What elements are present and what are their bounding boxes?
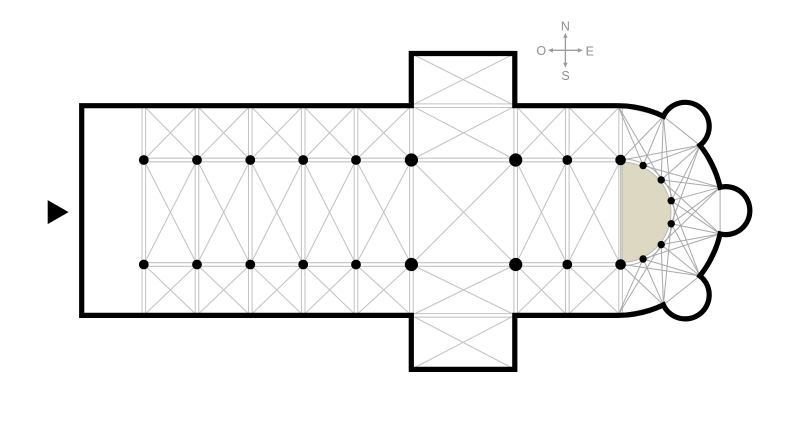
column P13 (south row) xyxy=(298,260,308,270)
ambulatory wall chord: NE chapel W junction to NE chapel E junction xyxy=(663,116,700,145)
ambulatory long rib: pier 2 to E chapel S junction xyxy=(661,180,720,234)
crossing pier P6 (north row) xyxy=(405,153,418,166)
ambulatory diagonal rib: pier 3 to E chapel S junction xyxy=(671,201,720,234)
hemicycle column C3 xyxy=(668,197,675,204)
north aisle rib vault X, bay 8 xyxy=(567,106,620,160)
north aisle rib vault X, bay 1 xyxy=(144,106,197,160)
column P3 (north row) xyxy=(245,155,255,165)
transverse arch pair at pier line 4 (x=303.2) xyxy=(301,106,305,316)
svg-text:O: O xyxy=(536,44,546,58)
ambulatory radial rib: hemicycle pier 3 to E chapel N junction xyxy=(671,187,720,200)
south transept arm rib vault X xyxy=(411,315,515,369)
transverse arch pair at pier line 2 (x=197) xyxy=(195,106,199,316)
crossing pier P16 (south row) xyxy=(509,258,522,271)
ambulatory wall chord: SE chapel W junction to S wall start xyxy=(618,305,663,315)
ambulatory long rib: pier 3 to SE chapel E junction xyxy=(671,201,700,276)
north aisle rib vault X, bay 5 xyxy=(356,106,411,160)
crossing pier P7 (north row) xyxy=(509,153,522,166)
transverse arch pair at pier line 6 (x=411.4) xyxy=(410,106,414,316)
north aisle rib vault X, bay 4 xyxy=(303,106,356,160)
ambulatory wall chord: N wall start to NE chapel W junction xyxy=(618,106,663,116)
nave rib vault X, bay 1 xyxy=(144,160,197,265)
nave rib vault X, bay 3 xyxy=(250,160,303,265)
south aisle rib vault X, bay 2 xyxy=(197,265,250,316)
south aisle rib vault X, bay 8 xyxy=(567,265,620,316)
column P5 (north row) xyxy=(351,155,361,165)
apse hemicycle shaded floor (choir) xyxy=(621,162,671,263)
church outer wall (nave, transept arms, apse with three radiating chapels) xyxy=(82,54,750,370)
ambulatory wall chord: NE chapel E junction to E chapel N junction xyxy=(700,145,720,187)
column P11 (south row) xyxy=(192,260,202,270)
north aisle rib vault X, bay 3 xyxy=(250,106,303,160)
svg-text:S: S xyxy=(561,69,569,83)
column P10 (south row) xyxy=(139,260,149,270)
north aisle rib vault X, bay 6 xyxy=(411,106,515,160)
nave rib vault X, bay 4 xyxy=(303,160,356,265)
south transept opening arch pair xyxy=(411,314,515,318)
transverse arch pair at pier line 9 (x=620.6) xyxy=(619,106,623,316)
north aisle rib vault X, bay 2 xyxy=(197,106,250,160)
south aisle rib vault X, bay 1 xyxy=(144,265,197,316)
ambulatory long rib: pier 0 to NE chapel E junction xyxy=(621,145,700,160)
south arcade arch pair (y=264.5) xyxy=(144,263,621,267)
ambulatory long rib: pier 6 to E chapel S junction xyxy=(643,234,720,259)
ambulatory radial rib: hemicycle pier 2 to NE chapel E junction xyxy=(661,145,700,180)
ambulatory long rib: pier 1 to E chapel N junction xyxy=(643,166,720,188)
nave rib vault X, bay 5 xyxy=(356,160,411,265)
hemicycle column C4 xyxy=(668,220,675,227)
north transept opening arch pair xyxy=(411,104,515,108)
ambulatory wall chord: SE chapel E junction to SE chapel W junction xyxy=(663,276,700,305)
ambulatory diagonal rib: pier 6 to SE chapel E junction xyxy=(643,259,700,276)
ambulatory long rib: pier 5 to S wall start xyxy=(618,245,661,316)
ambulatory long rib: pier 5 to E chapel N junction xyxy=(661,187,720,244)
south aisle rib vault X, bay 7 xyxy=(516,265,568,316)
north arcade arch pair (y=160) xyxy=(144,158,621,162)
ambulatory diagonal rib: pier 4 to E chapel N junction xyxy=(671,187,720,224)
north aisle rib vault X, bay 7 xyxy=(516,106,568,160)
hemicycle column C2 xyxy=(658,176,665,183)
south aisle rib vault X, bay 3 xyxy=(250,265,303,316)
ambulatory diagonal rib: pier 4 to SE chapel E junction xyxy=(671,224,700,276)
nave rib vault X, bay 6 xyxy=(411,160,515,265)
ambulatory diagonal rib: pier 0 to NE chapel W junction xyxy=(621,116,664,160)
west entrance arrow marker xyxy=(48,200,69,224)
ambulatory diagonal rib: pier 1 to N wall start xyxy=(618,106,643,166)
ambulatory wall chord: E chapel S junction to SE chapel E junction xyxy=(700,234,720,276)
hemicycle column C1 xyxy=(639,162,646,169)
column P14 (south row) xyxy=(351,260,361,270)
transverse arch pair at pier line 3 (x=250.3) xyxy=(249,106,253,316)
ambulatory long rib: pier 4 to SE chapel W junction xyxy=(663,224,671,305)
column P8 (north row) xyxy=(562,155,572,165)
hemicycle column C5 xyxy=(658,241,665,248)
ambulatory radial rib: hemicycle pier 6 to SE chapel W junction xyxy=(643,259,663,305)
ambulatory diagonal rib: pier 3 to NE chapel E junction xyxy=(671,145,700,200)
hemicycle end pier P18 (south row) xyxy=(615,259,626,270)
svg-text:N: N xyxy=(561,20,570,34)
ambulatory long rib: pier 2 to N wall start xyxy=(618,106,661,180)
ambulatory wall chord: E chapel N junction to E chapel S junction xyxy=(719,187,721,234)
ambulatory long rib: pier 7 to SE chapel E junction xyxy=(621,264,700,276)
ambulatory radial rib: hemicycle pier 1 to NE chapel W junction xyxy=(643,116,663,165)
ambulatory radial rib: hemicycle pier 4 to E chapel S junction xyxy=(671,224,720,234)
transverse arch pair at pier line 8 (x=567.3) xyxy=(566,106,570,316)
crossing pier P15 (south row) xyxy=(405,258,418,271)
column P2 (north row) xyxy=(192,155,202,165)
ambulatory diagonal rib: pier 2 to E chapel N junction xyxy=(661,180,720,187)
hemicycle ambulatory inner arc xyxy=(621,159,675,266)
ambulatory diagonal rib: pier 7 to SE chapel W junction xyxy=(621,264,664,305)
compass rose arrows xyxy=(548,33,583,68)
transverse arch pair at pier line 5 (x=356) xyxy=(354,106,358,316)
south aisle rib vault X, bay 6 xyxy=(411,265,515,316)
ambulatory long rib: pier 4 to NE chapel E junction xyxy=(671,145,700,224)
ambulatory diagonal rib: pier 2 to NE chapel W junction xyxy=(661,116,663,180)
hemicycle column C6 xyxy=(639,255,646,262)
hemicycle end pier P9 (north row) xyxy=(615,155,626,166)
ambulatory diagonal rib: pier 6 to S wall start xyxy=(618,259,643,315)
column P17 (south row) xyxy=(562,260,572,270)
transverse arch pair at pier line 1 (x=143.8) xyxy=(142,106,146,316)
south aisle rib vault X, bay 4 xyxy=(303,265,356,316)
south aisle rib vault X, bay 5 xyxy=(356,265,411,316)
ambulatory radial rib: hemicycle pier 5 to SE chapel E junction xyxy=(661,245,700,276)
north transept arm rib vault X xyxy=(411,54,515,106)
column P12 (south row) xyxy=(245,260,255,270)
nave rib vault X, bay 2 xyxy=(197,160,250,265)
column P1 (north row) xyxy=(139,155,149,165)
column P4 (north row) xyxy=(298,155,308,165)
ambulatory diagonal rib: pier 1 to NE chapel E junction xyxy=(643,145,700,165)
nave rib vault X, bay 7 xyxy=(516,160,568,265)
ambulatory diagonal rib: pier 5 to E chapel S junction xyxy=(661,234,720,245)
ambulatory long rib: pier 3 to NE chapel W junction xyxy=(663,116,671,200)
svg-text:E: E xyxy=(586,44,594,58)
transverse arch pair at pier line 7 (x=515.7) xyxy=(514,106,518,316)
nave rib vault X, bay 8 xyxy=(567,160,620,265)
ambulatory diagonal rib: pier 5 to SE chapel W junction xyxy=(661,245,663,305)
